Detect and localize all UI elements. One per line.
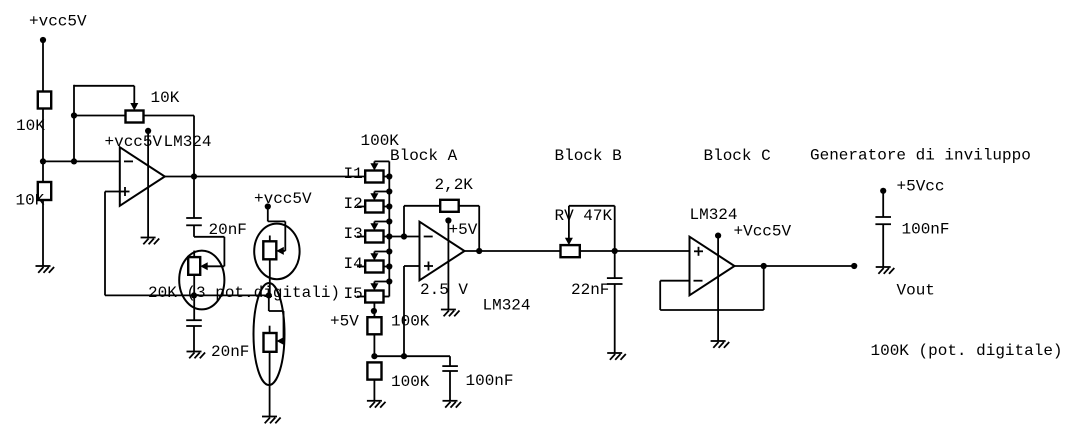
- wire U3 feedback bottom horizontal: [660, 309, 764, 311]
- arrowhead P1 wiper: [130, 103, 138, 111]
- arrowhead I3 wiper: [370, 223, 378, 230]
- wire E1 top stub: [193, 251, 195, 258]
- wire C3 to ground: [614, 284, 616, 353]
- wire to P1 wiper: [133, 86, 135, 104]
- node dot I4 wiper on bus: [386, 248, 392, 254]
- node dot Vout terminal: [851, 263, 857, 269]
- wire I3 wiper drop: [373, 222, 375, 225]
- digital pot E2 body: [263, 241, 276, 259]
- wire E2 wiper vertical: [284, 221, 286, 251]
- wire I2 wiper drop: [373, 192, 375, 195]
- wire I1 right to bus: [384, 176, 390, 178]
- wire divider node to op-amp U1 inverting input: [43, 160, 120, 162]
- U1 minus sign: [124, 160, 133, 162]
- svg-text:2,2K: 2,2K: [435, 176, 474, 194]
- pot I2 body: [365, 201, 383, 213]
- svg-text:+5V: +5V: [330, 313, 359, 331]
- wire output column down to C1: [193, 116, 195, 219]
- node dot I3 wiper on bus: [386, 218, 392, 224]
- ground (U3 negative supply): [711, 340, 726, 342]
- wire E2 supply horizontal: [268, 220, 286, 222]
- ground (below R2): [36, 265, 51, 267]
- ground (U2 negative supply): [441, 309, 456, 311]
- wire R4 to ground: [373, 380, 375, 401]
- op-amp U3 triangle: [690, 237, 735, 296]
- wire U3 output: [735, 265, 855, 267]
- wire E1 wiper horizontal: [207, 265, 225, 267]
- capacitor C3 22nF plates: [607, 277, 623, 279]
- digital pot E3 circle: [254, 283, 285, 385]
- wire C2 to ground: [193, 326, 195, 352]
- U3 minus sign: [694, 280, 703, 282]
- wire U3 minus stub: [660, 280, 689, 282]
- ground (below R4): [367, 400, 382, 402]
- svg-text:RV 47K: RV 47K: [555, 207, 613, 225]
- node dot +5V supply: [371, 308, 377, 314]
- op-amp U2 triangle: [420, 222, 465, 281]
- wire E3 wiper horizontal: [282, 340, 285, 342]
- node +vcc5V terminal dot: [40, 37, 46, 43]
- node dot E1 on 20K net: [191, 292, 197, 298]
- wire I4 wiper drop: [373, 252, 375, 255]
- pot I5 body: [365, 291, 383, 303]
- wire I2 wiper to bus: [374, 191, 389, 193]
- wire node to P1 left: [74, 115, 126, 117]
- U2 plus sign: [424, 265, 433, 267]
- node dot +5Vcc supply: [880, 188, 886, 194]
- arrowhead I1 wiper: [370, 163, 378, 170]
- wire E2 bottom to 20K net: [269, 259, 271, 295]
- wire U3 feedback right vertical: [763, 266, 765, 310]
- resistor R4 100K (lower reference): [367, 362, 381, 379]
- pot I1 body: [365, 171, 383, 183]
- wire E1 wiper vertical: [223, 237, 225, 266]
- wire RV wiper top horizontal: [569, 205, 615, 207]
- wire I3 wiper to bus: [374, 221, 389, 223]
- svg-text:I1: I1: [344, 165, 363, 183]
- wire U1 plus input vertical: [104, 192, 106, 296]
- ground (below C5): [876, 266, 891, 268]
- node dot I1 right on bus: [386, 173, 392, 179]
- node dot U3 output: [761, 263, 767, 269]
- resistor R5 2,2K feedback: [440, 200, 459, 212]
- node dot U1 output: [191, 173, 197, 179]
- arrowhead I2 wiper: [370, 193, 378, 200]
- wire reference to U2 plus vertical: [403, 266, 405, 356]
- ground (U1 negative supply): [141, 237, 156, 239]
- svg-text:Block C: Block C: [704, 147, 771, 165]
- node dot I2 wiper on bus: [386, 188, 392, 194]
- capacitor C2 20nF plates: [186, 319, 202, 321]
- arrowhead E2 wiper: [276, 247, 284, 255]
- wire vcc dot to R1: [42, 40, 44, 92]
- potentiometer RV body: [561, 245, 580, 257]
- svg-text:Block B: Block B: [555, 147, 622, 165]
- svg-text:100K: 100K: [391, 313, 430, 331]
- wire reference node horizontal: [374, 355, 450, 357]
- wire C1 to E1 horizontal: [194, 236, 224, 238]
- wire I4 left stub: [357, 266, 365, 268]
- svg-text:I2: I2: [344, 195, 363, 213]
- wire U1 supply stem: [147, 131, 149, 238]
- arrowhead I4 wiper: [370, 253, 378, 260]
- capacitor C1 20nF plates: [186, 217, 202, 219]
- svg-text:I5: I5: [344, 285, 363, 303]
- wire I1 wiper drop: [373, 161, 375, 164]
- wire U2 output to RV: [465, 250, 561, 252]
- wire I5 wiper to bus: [374, 281, 389, 283]
- svg-text:+Vcc5V: +Vcc5V: [734, 223, 792, 241]
- node dot I3 right on bus: [386, 233, 392, 239]
- svg-text:10K: 10K: [151, 89, 180, 107]
- wire I2 left stub: [357, 206, 365, 208]
- svg-text:+5Vcc: +5Vcc: [897, 178, 945, 196]
- node dot U2 output feedback join: [476, 248, 482, 254]
- wire U2 feedback vertical: [403, 206, 405, 237]
- wire P1 right to output column: [144, 115, 195, 117]
- potentiometer P1 10K body: [126, 111, 144, 123]
- U1 plus sign: [121, 191, 130, 193]
- svg-text:10K: 10K: [16, 117, 45, 135]
- wire U2 supply stem: [447, 221, 449, 310]
- wire bottom net horizontal (20K net): [105, 294, 269, 296]
- wire I5 bottom to +5V node: [373, 303, 375, 318]
- wire R2 to ground: [42, 200, 44, 266]
- capacitor C5 100nF plates: [875, 216, 891, 218]
- summing bus vertical: [388, 161, 390, 296]
- node dot U2 supply: [445, 217, 451, 223]
- arrowhead RV wiper: [565, 238, 573, 245]
- svg-text:20nF: 20nF: [211, 343, 249, 361]
- wire U2 feedback to R5: [404, 205, 440, 207]
- wire I5 right to bus: [384, 296, 390, 298]
- svg-text:I4: I4: [344, 255, 363, 273]
- node dot I5 wiper on bus: [386, 278, 392, 284]
- wire I3 left stub: [357, 236, 365, 238]
- wire feedback top horizontal: [74, 85, 134, 87]
- node dot I4 right on bus: [386, 263, 392, 269]
- svg-text:22nF: 22nF: [571, 281, 609, 299]
- U3 plus sign: [694, 250, 703, 252]
- node dot feedback tap: [71, 158, 77, 164]
- wire E3 bottom to ground: [269, 352, 271, 417]
- svg-text:LM324: LM324: [483, 297, 531, 315]
- pot I4 body: [365, 261, 383, 273]
- node dot I2 right on bus: [386, 203, 392, 209]
- resistor R1 10K (upper divider): [38, 92, 51, 109]
- wire bus to U2 inverting input: [389, 236, 419, 238]
- wire I4 wiper to bus: [374, 251, 389, 253]
- wire E3 top stub: [269, 326, 271, 333]
- arrowhead E1 wiper: [200, 262, 208, 270]
- wire RV wiper vertical: [568, 206, 570, 239]
- capacitor C4 100nF plates: [442, 365, 458, 367]
- wire RV right to U3 plus: [580, 250, 690, 252]
- wire E2 top stub: [269, 236, 271, 242]
- node dot U2 inverting: [401, 233, 407, 239]
- node dot P1 left: [71, 112, 77, 118]
- svg-text:100K: 100K: [391, 373, 430, 391]
- svg-text:Block A: Block A: [390, 147, 458, 165]
- wire E2 wiper horizontal: [283, 250, 286, 252]
- svg-text:Generatore di inviluppo: Generatore di inviluppo: [810, 147, 1031, 165]
- node junction dot divider mid: [40, 158, 46, 164]
- svg-text:LM324: LM324: [690, 206, 738, 224]
- wire E3 node vertical: [268, 295, 270, 311]
- op-amp U1 triangle: [120, 147, 165, 206]
- svg-text:+5V: +5V: [449, 221, 478, 239]
- wire C4 to ground: [449, 371, 451, 401]
- svg-text:+vcc5V: +vcc5V: [29, 13, 87, 31]
- ground (below C2): [187, 351, 202, 353]
- node dot U1 supply: [145, 128, 151, 134]
- wire E1 bottom to C2: [193, 275, 195, 320]
- svg-text:+vcc5V: +vcc5V: [254, 190, 312, 208]
- wire U1 output to I1: [165, 176, 365, 178]
- digital pot E1 circle: [179, 251, 224, 310]
- ground (below E3): [262, 416, 277, 418]
- svg-text:20K (3 pot.digitali): 20K (3 pot.digitali): [148, 284, 340, 302]
- ground (below C3): [607, 352, 622, 354]
- wire I4 right to bus: [384, 266, 390, 268]
- node dot E2 supply: [265, 203, 271, 209]
- node dot RV output: [612, 248, 618, 254]
- arrowhead E3 wiper: [277, 337, 285, 345]
- wire R5 feedback down to output: [478, 206, 480, 251]
- digital pot E2 circle: [254, 224, 299, 280]
- wire I3 right to bus: [384, 236, 390, 238]
- wire C1 bottom vertical: [193, 225, 195, 237]
- wire E2 supply stem: [267, 207, 269, 222]
- node dot reference to U2 plus: [401, 353, 407, 359]
- svg-text:2.5 V: 2.5 V: [420, 281, 468, 299]
- wire RV wiper right vertical: [614, 206, 616, 251]
- wire U3 feedback left vertical: [659, 281, 661, 310]
- wire R5 right horizontal: [459, 205, 480, 207]
- node dot U3 supply: [715, 233, 721, 239]
- svg-text:100nF: 100nF: [902, 221, 950, 239]
- wire U1 plus input stub: [105, 191, 120, 193]
- wire R3 to node: [373, 334, 375, 356]
- svg-text:10K: 10K: [16, 192, 45, 210]
- svg-text:100nF: 100nF: [466, 372, 514, 390]
- wire feedback vertical: [73, 85, 75, 162]
- U2 minus sign: [424, 236, 433, 238]
- wire I5 left stub: [357, 296, 365, 298]
- wire R1 to R2 through node: [42, 109, 44, 183]
- wire supply to C5: [882, 191, 884, 217]
- wire I1 wiper to bus: [374, 160, 389, 162]
- arrowhead I5 wiper: [370, 283, 378, 290]
- wire E3 horizontal: [269, 310, 284, 312]
- digital pot E3 body: [264, 333, 277, 352]
- svg-text:Vout: Vout: [897, 282, 935, 300]
- svg-text:100K (pot. digitale): 100K (pot. digitale): [871, 342, 1063, 360]
- node dot reference: [371, 353, 377, 359]
- svg-text:I3: I3: [344, 225, 363, 243]
- resistor R2 10K (lower divider): [38, 182, 51, 200]
- wire I5 wiper drop: [373, 282, 375, 285]
- resistor R3 100K (upper reference): [367, 317, 381, 334]
- wire I2 right to bus: [384, 206, 390, 208]
- pot I3 body: [365, 231, 383, 243]
- wire U2 plus stub: [404, 265, 420, 267]
- wire node to C4: [449, 356, 451, 366]
- wire U3 supply stem: [717, 236, 719, 341]
- digital pot E1 body: [188, 257, 200, 275]
- svg-text:LM324: LM324: [164, 133, 212, 151]
- node dot E3 on 20K net: [266, 292, 272, 298]
- svg-text:+vcc5V: +vcc5V: [105, 133, 163, 151]
- ground (below C4): [443, 400, 458, 402]
- wire node to C3: [614, 251, 616, 278]
- wire C5 to ground: [882, 224, 884, 267]
- wire E3 wiper vertical: [283, 311, 285, 341]
